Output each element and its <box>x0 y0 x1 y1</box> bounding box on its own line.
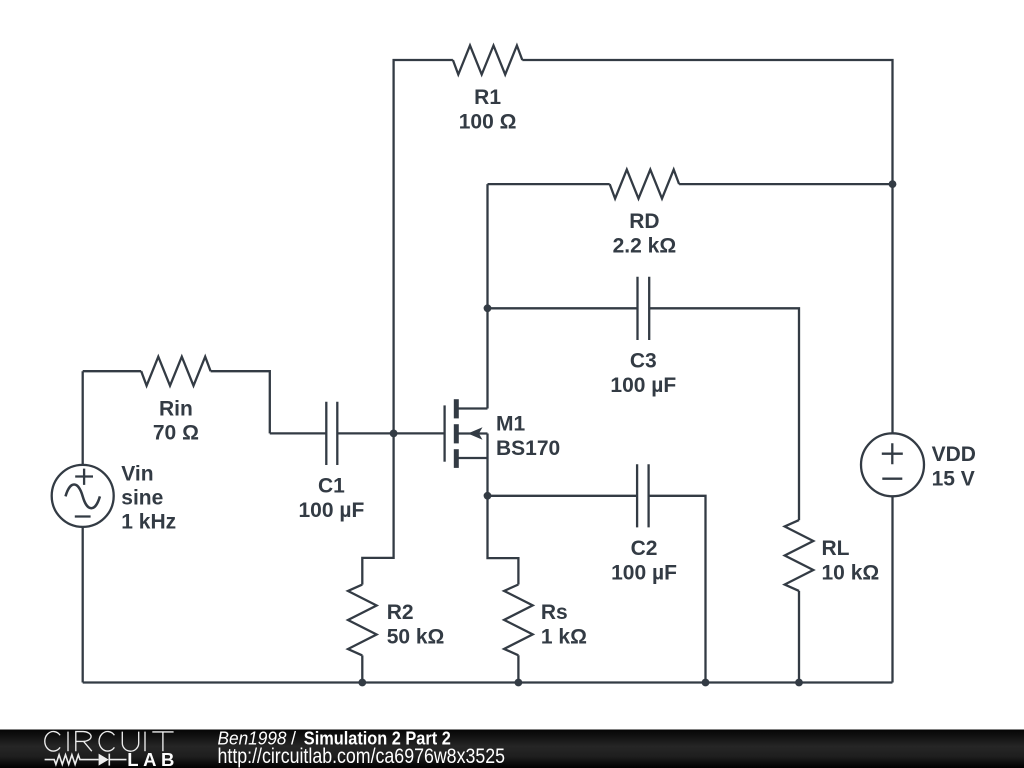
junction node at gate / C1 <box>390 430 398 438</box>
svg-text:1 kΩ: 1 kΩ <box>541 625 587 648</box>
svg-text:C2: C2 <box>631 537 658 560</box>
svg-text:Rs: Rs <box>541 601 568 624</box>
svg-text:RD: RD <box>629 210 659 233</box>
wire right rail RD-node to VDD top <box>891 184 893 433</box>
junction node at source / C2 <box>484 492 492 500</box>
wire C2 left lead <box>488 495 638 497</box>
transistor M1 channel bar bottom <box>454 449 459 468</box>
wire source node down to Rs <box>488 496 519 585</box>
transistor M1 body stub <box>456 432 487 434</box>
wire gate node down to R2 <box>362 433 393 584</box>
transistor M1 channel bar top <box>454 399 459 418</box>
wire RD left lead <box>488 183 610 185</box>
svg-text:50 kΩ: 50 kΩ <box>387 625 445 648</box>
transistor M1 gate bar <box>443 405 445 461</box>
resistor RD <box>610 170 679 199</box>
transistor M1 channel bar middle <box>454 424 459 443</box>
wire Rin right lead down to C1 <box>211 371 270 433</box>
junction node C2 bottom <box>702 679 710 687</box>
source Vin sine wave <box>66 485 100 509</box>
logo CIRCUIT strokes <box>45 732 174 752</box>
svg-text:RL: RL <box>822 537 850 560</box>
transistor M1 source stub <box>456 457 487 459</box>
junction node Rs bottom <box>515 679 523 687</box>
source VDD circle <box>861 433 924 496</box>
wire top-left vertical and R1 left lead <box>394 60 453 433</box>
svg-text:http://circuitlab.com/ca6976w8: http://circuitlab.com/ca6976w8x3525 <box>218 745 506 768</box>
svg-text:100 µF: 100 µF <box>298 499 364 522</box>
svg-text:C3: C3 <box>630 350 657 373</box>
wire Vin bottom lead <box>82 527 84 683</box>
resistor Rs <box>504 585 533 656</box>
resistor Rin <box>141 357 210 386</box>
wire Rin left lead <box>83 370 142 372</box>
wire Vin top lead <box>82 371 84 465</box>
source Vin minus sign <box>75 515 91 517</box>
wire bottom rail <box>83 681 893 683</box>
svg-text:10 kΩ: 10 kΩ <box>822 562 880 585</box>
wire source vertical to node <box>486 458 488 496</box>
svg-text:100 µF: 100 µF <box>610 374 676 397</box>
wire Rs bottom lead <box>517 655 519 682</box>
svg-text:2.2 kΩ: 2.2 kΩ <box>613 235 677 258</box>
wire C1 left lead <box>270 432 327 434</box>
svg-text:R1: R1 <box>474 86 501 109</box>
svg-text:C1: C1 <box>318 474 345 497</box>
wire body to source tie <box>486 434 488 459</box>
resistor R1 <box>453 46 522 75</box>
capacitor C1 plates <box>326 402 337 465</box>
svg-text:100 Ω: 100 Ω <box>459 110 517 133</box>
source VDD plus sign <box>882 443 903 464</box>
svg-text:VDD: VDD <box>932 443 976 466</box>
wire RD right lead <box>679 183 892 185</box>
svg-text:Rin: Rin <box>159 397 193 420</box>
logo resistor squiggle and diode <box>45 754 127 766</box>
svg-text:70 Ω: 70 Ω <box>153 422 199 445</box>
source Vin circle <box>52 465 114 527</box>
svg-text:R2: R2 <box>387 601 414 624</box>
svg-text:1 kHz: 1 kHz <box>121 511 176 534</box>
wire gate lead <box>394 432 445 434</box>
resistor R2 <box>348 585 377 656</box>
wire drain vertical <box>486 184 488 408</box>
transistor M1 body arrow <box>468 427 483 440</box>
svg-text:15 V: 15 V <box>932 467 975 490</box>
svg-text:Vin: Vin <box>121 463 153 486</box>
junction node R2 bottom <box>358 679 366 687</box>
wire VDD bottom to ground rail <box>891 496 893 682</box>
junction node at RD right <box>889 180 897 188</box>
wire R1 right lead to right rail <box>522 60 892 184</box>
wire RL bottom lead <box>798 591 800 683</box>
wire C3 right lead to RL top <box>649 308 799 520</box>
wire C1 right lead <box>337 432 393 434</box>
wire C2 right lead down to bottom rail <box>649 496 706 683</box>
svg-text:LAB: LAB <box>127 749 179 768</box>
junction node at drain / C3 <box>484 304 492 312</box>
svg-text:sine: sine <box>121 487 163 510</box>
wire C3 left lead <box>488 307 638 309</box>
source VDD minus sign <box>882 478 902 480</box>
junction node RL bottom <box>795 679 803 687</box>
capacitor C3 plates <box>638 277 650 340</box>
resistor RL <box>785 520 814 591</box>
svg-text:100 µF: 100 µF <box>611 562 677 585</box>
source Vin plus sign <box>75 469 93 485</box>
svg-text:M1: M1 <box>496 413 525 436</box>
capacitor C2 plates <box>637 464 649 527</box>
svg-text:BS170: BS170 <box>496 437 560 460</box>
wire R2 bottom lead <box>361 655 363 682</box>
transistor M1 drain stub <box>456 407 487 409</box>
